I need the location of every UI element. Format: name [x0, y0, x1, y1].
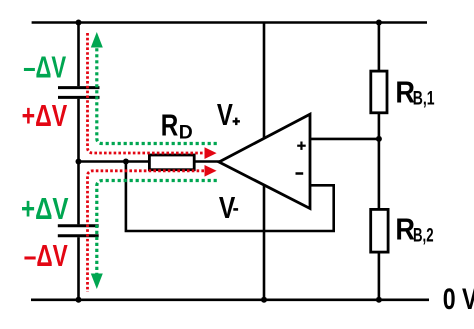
op-amp plus input sign [297, 145, 306, 147]
current path green upper arrowhead [91, 32, 103, 48]
wire middle vertical (through op-amp area) [263, 23, 266, 300]
node bottom-left junction [76, 297, 82, 303]
current path green upper (dotted) [97, 47, 217, 144]
resistor RD [149, 155, 194, 170]
wire bottom rail (0 V) [31, 298, 429, 301]
capacitor C1 bottom plate [58, 96, 100, 99]
op-amp U1 [219, 114, 310, 208]
svg-text:+ΔV: +ΔV [21, 191, 69, 226]
node bottom-right junction [376, 297, 382, 303]
op-amp minus input sign [296, 172, 304, 175]
wire noninverting input to divider [308, 138, 379, 141]
svg-text:B,2: B,2 [413, 226, 434, 247]
svg-text:+ΔV: +ΔV [22, 98, 68, 133]
resistor RB1 [371, 71, 387, 113]
current path red lower (dotted) [88, 171, 205, 292]
wire right branch [378, 23, 381, 300]
svg-text:0 V: 0 V [443, 283, 474, 316]
node divider mid junction [376, 136, 382, 142]
node top-right junction [376, 20, 382, 26]
label V- subscript minus [233, 208, 238, 211]
capacitor C2 bottom plate [58, 234, 99, 237]
wire left branch lower segment [77, 237, 80, 300]
node bottom-middle junction [261, 297, 267, 303]
svg-text:R: R [161, 108, 179, 143]
capacitor C2 top plate [58, 224, 99, 227]
node V- tap junction [123, 159, 129, 165]
current path red upper arrowhead [205, 147, 217, 159]
current path green lower (dotted) [97, 181, 217, 275]
current path green lower arrowhead [91, 274, 103, 290]
capacitor C1 top plate [58, 86, 100, 89]
svg-text:–ΔV: –ΔV [23, 50, 66, 85]
wire main horizontal to op-amp [79, 160, 222, 163]
svg-text:V: V [219, 190, 236, 225]
wire left branch upper segment [77, 23, 80, 87]
current path red lower arrowhead [205, 165, 217, 177]
node left tee junction [76, 159, 82, 165]
resistor RB2 [371, 209, 388, 252]
svg-text:D: D [179, 122, 193, 143]
wire left branch middle segment [77, 99, 80, 225]
label V+ subscript plus [233, 120, 240, 122]
svg-text:V: V [217, 97, 233, 132]
svg-text:B,1: B,1 [413, 88, 435, 109]
wire V- feedback branch [126, 162, 334, 232]
wire top rail [32, 21, 427, 24]
node top-left junction [76, 20, 82, 26]
svg-text:–ΔV: –ΔV [24, 238, 68, 273]
current path red upper (dotted) [88, 33, 205, 153]
